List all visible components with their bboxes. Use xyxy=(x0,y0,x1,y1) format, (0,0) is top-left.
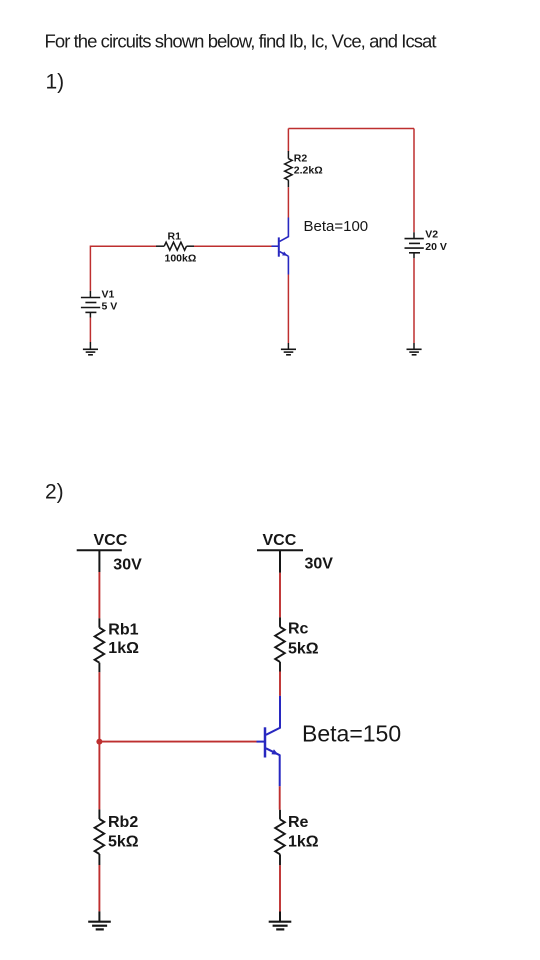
resistor R2 xyxy=(285,151,323,187)
svg-text:30V: 30V xyxy=(113,556,142,573)
label Beta=150 xyxy=(302,721,401,747)
svg-text:VCC: VCC xyxy=(94,532,128,549)
ground right xyxy=(269,912,292,930)
resistor Rb1 xyxy=(95,618,139,672)
svg-text:2): 2) xyxy=(45,480,64,503)
svg-text:5 V: 5 V xyxy=(102,300,118,312)
svg-text:R1: R1 xyxy=(168,231,182,243)
svg-text:Rb2: Rb2 xyxy=(108,814,138,831)
label Beta=100 xyxy=(304,218,369,235)
wire base (R1 right to Q1 base) xyxy=(194,245,272,247)
wire V2 top xyxy=(413,129,415,233)
wire top (R2 top to V2 top) xyxy=(288,128,414,130)
svg-text:V1: V1 xyxy=(102,288,115,300)
wire Rb1 to Rb2 (through node) xyxy=(98,672,100,809)
svg-text:5kΩ: 5kΩ xyxy=(108,833,139,850)
ground under Q1 xyxy=(281,343,296,355)
wire V2 to ground xyxy=(413,258,415,343)
wire R1 left to V1 xyxy=(90,246,156,291)
svg-text:Re: Re xyxy=(288,814,309,831)
resistor Rc xyxy=(275,617,319,671)
svg-text:100kΩ: 100kΩ xyxy=(165,253,197,265)
svg-text:Rb1: Rb1 xyxy=(108,622,138,639)
resistor Rb2 xyxy=(95,809,139,865)
svg-text:30V: 30V xyxy=(305,555,334,572)
wire Re to ground xyxy=(279,865,281,911)
svg-text:For the circuits shown below,: For the circuits shown below, find Ib, I… xyxy=(45,31,437,52)
svg-text:R2: R2 xyxy=(294,153,308,165)
label 1) xyxy=(46,71,65,94)
ground under V1 xyxy=(83,342,98,355)
resistor R1 xyxy=(156,231,196,265)
battery V2 xyxy=(405,228,447,258)
ground under V2 xyxy=(407,343,422,355)
svg-text:1kΩ: 1kΩ xyxy=(288,833,319,850)
wire emitter to ground xyxy=(287,275,289,344)
svg-text:1kΩ: 1kΩ xyxy=(108,640,139,657)
transistor Q1 xyxy=(272,218,289,275)
svg-text:VCC: VCC xyxy=(263,532,297,549)
wire R2 bottom to collector xyxy=(287,187,289,217)
battery V1 xyxy=(81,288,117,317)
title text xyxy=(45,31,437,52)
power VCC left xyxy=(77,532,142,574)
wire emitter to Re xyxy=(279,786,281,810)
wire Rb2 to ground xyxy=(98,865,100,911)
svg-text:2.2kΩ: 2.2kΩ xyxy=(294,164,323,176)
ground left xyxy=(88,911,111,929)
svg-text:V2: V2 xyxy=(425,228,438,240)
power VCC right xyxy=(257,532,333,573)
svg-text:5kΩ: 5kΩ xyxy=(288,641,319,658)
transistor Q2 xyxy=(257,696,281,786)
svg-text:20 V: 20 V xyxy=(425,241,447,253)
node junction dot xyxy=(96,739,102,745)
resistor Re xyxy=(275,810,319,866)
wire base (node to Q2) xyxy=(99,741,256,743)
svg-text:Rc: Rc xyxy=(288,621,309,638)
wire Rc to collector xyxy=(279,672,281,696)
wire VCC right to Rc xyxy=(279,573,281,618)
svg-text:1): 1) xyxy=(46,71,65,94)
svg-text:Beta=150: Beta=150 xyxy=(302,721,401,747)
svg-text:Beta=100: Beta=100 xyxy=(304,218,369,235)
label 2) xyxy=(45,480,64,503)
wire VCC left to Rb1 xyxy=(98,572,100,618)
wire R2 top stub xyxy=(287,129,289,152)
wire V1 to ground xyxy=(89,318,91,343)
